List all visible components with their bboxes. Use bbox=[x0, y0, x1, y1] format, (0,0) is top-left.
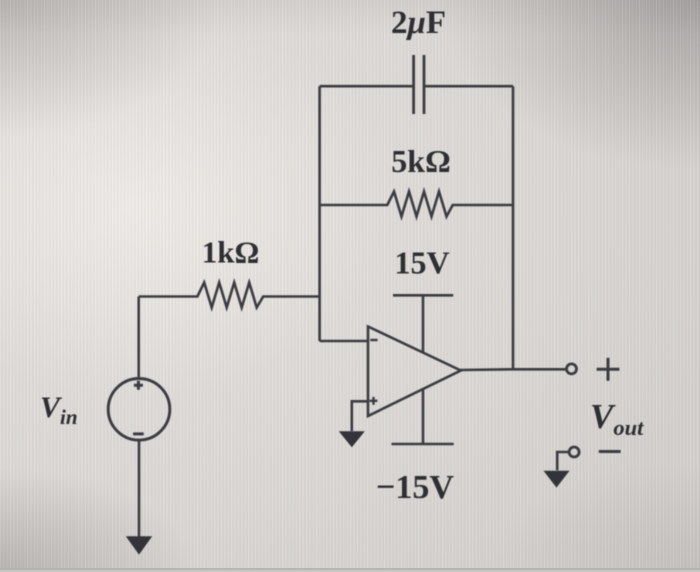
plus marker inside Vin source bbox=[134, 381, 143, 390]
svg-text:5kΩ: 5kΩ bbox=[391, 143, 450, 179]
wire: inverting input from left vertical to op-amp bbox=[320, 340, 368, 343]
ground symbol below Vin (arrowhead) bbox=[126, 536, 152, 554]
svg-text:1kΩ: 1kΩ bbox=[202, 235, 260, 270]
plus marker inside op-amp bbox=[370, 397, 378, 405]
svg-text:15V: 15V bbox=[394, 245, 449, 281]
svg-text:Vout: Vout bbox=[590, 397, 644, 440]
svg-text:2μF: 2μF bbox=[391, 5, 446, 41]
wire: top feedback, left of capacitor bbox=[320, 85, 414, 88]
voltage source Vin circle bbox=[108, 379, 170, 441]
wire: left side of feedback loop (vertical) bbox=[318, 86, 321, 341]
output terminal circle (+) bbox=[567, 364, 577, 374]
lower terminal circle (-) bbox=[569, 447, 579, 457]
capacitor C1 2uF plates bbox=[414, 55, 424, 114]
wire: Vin top lead bbox=[137, 297, 140, 379]
svg-text:Vin: Vin bbox=[40, 391, 78, 429]
wire: top feedback, right of capacitor bbox=[424, 85, 513, 88]
wire: op-amp output bbox=[461, 368, 566, 371]
op-amp positive supply tee 15V bbox=[393, 295, 453, 352]
op-amp negative supply tee -15V bbox=[392, 389, 454, 444]
minus sign at lower terminal bbox=[599, 450, 621, 453]
op-amp U1 triangle bbox=[368, 327, 461, 417]
ground symbol at lower output terminal bbox=[544, 471, 570, 488]
minus marker inside Vin source bbox=[133, 432, 144, 435]
wire: right side of feedback loop (vertical) bbox=[512, 86, 515, 369]
resistor R1 1k ohm with leads bbox=[139, 283, 320, 308]
wire: non-inverting input to ground bbox=[352, 401, 368, 431]
wire: Vin bottom lead bbox=[138, 440, 141, 538]
resistor R2 5k ohm with leads bbox=[320, 192, 513, 217]
ground symbol at op-amp non-inverting input bbox=[339, 431, 365, 447]
wire: lower output terminal to ground bbox=[557, 452, 569, 470]
minus marker inside op-amp bbox=[370, 339, 377, 341]
plus sign at output bbox=[597, 358, 620, 381]
svg-text:−15V: −15V bbox=[376, 469, 454, 506]
